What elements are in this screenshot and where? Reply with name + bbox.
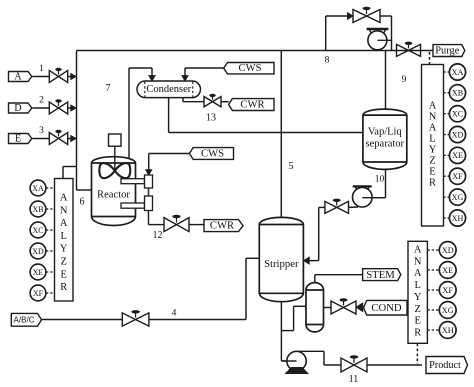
svg-text:Z: Z	[414, 304, 420, 315]
svg-text:XE: XE	[452, 151, 463, 160]
svg-text:A: A	[429, 123, 437, 134]
svg-text:L: L	[414, 280, 420, 291]
svg-text:XC: XC	[452, 110, 463, 119]
svg-text:E: E	[429, 167, 435, 178]
svg-text:1: 1	[39, 64, 44, 74]
svg-text:A: A	[60, 218, 68, 229]
svg-text:Purge: Purge	[435, 45, 459, 56]
svg-text:XD: XD	[442, 246, 454, 255]
svg-text:XE: XE	[442, 266, 453, 275]
svg-text:COND: COND	[371, 302, 402, 314]
svg-text:L: L	[429, 134, 435, 145]
svg-text:Vap/Liq: Vap/Liq	[368, 126, 403, 137]
svg-text:8: 8	[325, 56, 330, 66]
svg-text:XC: XC	[33, 226, 44, 235]
svg-text:XB: XB	[452, 89, 463, 98]
svg-text:separator: separator	[366, 139, 405, 150]
svg-text:Product: Product	[429, 360, 461, 371]
svg-text:12: 12	[153, 230, 163, 241]
svg-text:7: 7	[106, 83, 111, 94]
svg-text:Z: Z	[429, 156, 435, 167]
svg-text:2: 2	[39, 95, 44, 105]
svg-text:CWS: CWS	[201, 148, 224, 159]
svg-text:10: 10	[375, 175, 385, 185]
svg-text:XA: XA	[32, 184, 44, 193]
svg-text:Condenser: Condenser	[146, 84, 191, 95]
svg-text:Reactor: Reactor	[97, 189, 130, 200]
svg-text:XD: XD	[32, 247, 44, 256]
svg-text:CWS: CWS	[239, 63, 262, 74]
svg-text:Z: Z	[60, 257, 66, 268]
svg-text:L: L	[60, 231, 66, 242]
svg-text:9: 9	[402, 75, 407, 85]
svg-text:6: 6	[80, 197, 85, 208]
svg-text:N: N	[60, 205, 68, 216]
svg-text:A: A	[60, 193, 68, 204]
svg-text:XF: XF	[442, 286, 453, 295]
svg-text:A: A	[429, 101, 437, 112]
svg-text:D: D	[14, 103, 21, 114]
svg-text:XG: XG	[452, 193, 464, 202]
svg-text:XE: XE	[33, 268, 44, 277]
svg-text:A: A	[414, 268, 422, 279]
svg-text:R: R	[414, 328, 421, 339]
svg-text:STEM: STEM	[366, 269, 395, 281]
svg-text:XH: XH	[452, 214, 464, 223]
svg-text:A: A	[14, 71, 22, 82]
svg-text:R: R	[429, 178, 436, 189]
svg-text:XG: XG	[442, 306, 454, 315]
svg-text:Y: Y	[429, 145, 437, 156]
svg-text:R: R	[60, 282, 67, 293]
svg-text:Stripper: Stripper	[264, 258, 299, 270]
svg-text:E: E	[60, 269, 66, 280]
svg-text:E: E	[15, 133, 21, 144]
svg-text:CWR: CWR	[240, 99, 265, 110]
svg-text:XH: XH	[442, 326, 454, 335]
svg-text:13: 13	[206, 113, 216, 124]
svg-text:3: 3	[39, 126, 44, 136]
svg-text:XA: XA	[452, 68, 464, 77]
svg-text:5: 5	[289, 161, 294, 172]
svg-text:N: N	[429, 112, 437, 123]
svg-text:XB: XB	[33, 205, 44, 214]
svg-text:4: 4	[172, 309, 177, 319]
svg-text:Y: Y	[414, 292, 422, 303]
svg-text:XF: XF	[452, 172, 463, 181]
svg-text:N: N	[414, 256, 422, 267]
svg-text:XD: XD	[452, 130, 464, 139]
svg-text:CWR: CWR	[210, 220, 235, 231]
svg-text:11: 11	[349, 374, 359, 385]
svg-text:A/B/C: A/B/C	[14, 316, 35, 325]
svg-text:A: A	[414, 245, 422, 256]
svg-text:XF: XF	[33, 289, 44, 298]
svg-text:E: E	[414, 316, 420, 327]
svg-text:Y: Y	[60, 244, 68, 255]
